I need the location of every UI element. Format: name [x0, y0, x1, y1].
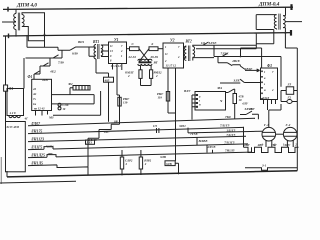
- svg-text:н: н: [264, 89, 266, 92]
- svg-text:Г-2: Г-2: [285, 123, 291, 127]
- IC F1: [32, 79, 52, 110]
- box 405: [104, 77, 114, 82]
- transformer T1 primary winding: [14, 14, 16, 30]
- IC U4: [195, 92, 226, 111]
- wire U4 pins left down: [191, 95, 193, 120]
- svg-text:9: 9: [110, 55, 112, 58]
- wire T2 primary bottom staircase left: [196, 29, 277, 49]
- wire bottom rail with notch: [245, 168, 297, 171]
- svg-text:3031: 3031: [178, 124, 186, 128]
- svg-text:ЗЛВ: ЗЛВ: [159, 155, 166, 159]
- wire bottom frame corner left: [6, 171, 8, 177]
- transformer VT1 primary winding: [94, 45, 96, 59]
- hatch marks F2: [76, 86, 88, 91]
- row 4V1E second to U3 pin: [240, 65, 259, 72]
- transformer T2 core: [279, 14, 280, 30]
- wire VT1 primary bottom down: [96, 59, 109, 77]
- svg-text:41В: 41В: [41, 78, 48, 82]
- transformer VT2 core: [189, 46, 190, 62]
- resistor 47V: [233, 94, 237, 104]
- wire nested corner 2: [53, 91, 101, 115]
- wire VT2 secondary bottom long line y57 to right: [193, 58, 214, 61]
- svg-text:С5: С5: [153, 124, 157, 128]
- node tick left top bus: [7, 7, 9, 12]
- svg-text:Э117-43М: Э117-43М: [6, 125, 19, 129]
- svg-text:11: 11: [165, 53, 168, 56]
- wire U2 to VT2: [184, 47, 187, 58]
- transformer VT1 core: [98, 44, 99, 59]
- svg-text:а: а: [199, 96, 201, 99]
- svg-text:ЛН175: ЛН175: [30, 130, 42, 134]
- svg-text:Ф1: Ф1: [28, 75, 33, 79]
- svg-text:Г-1: Г-1: [263, 123, 269, 127]
- svg-text:4В1Е: 4В1Е: [231, 59, 241, 63]
- wire left vertical from bus B: [5, 36, 7, 85]
- svg-text:ВТ: ВТ: [153, 61, 159, 65]
- svg-text:7: 7: [178, 46, 180, 49]
- wire element G2 horizontal: [281, 101, 297, 103]
- fuse F1m: [118, 97, 121, 106]
- svg-text:4 2 8: 4 2 8: [9, 111, 17, 115]
- contact 7L3E: [222, 53, 228, 56]
- fuse F2m: [166, 92, 169, 102]
- contact F4: [226, 89, 235, 92]
- cascade drop to row c2: [214, 45, 281, 56]
- svg-text:7з: 7з: [33, 97, 37, 101]
- row 4V1E first: [218, 57, 240, 66]
- wire X to VT: [140, 59, 149, 62]
- svg-text:119: 119: [158, 96, 163, 100]
- svg-text:7Л9: 7Л9: [58, 60, 64, 64]
- contact C6: [203, 42, 209, 45]
- contact 3L5L: [240, 111, 258, 119]
- net row 1 line: [28, 118, 255, 126]
- svg-text:з: з: [198, 100, 201, 103]
- resistor C between U1 and X: [130, 47, 140, 51]
- svg-text:4Г: 4Г: [24, 117, 29, 121]
- svg-text:7: 7: [121, 45, 123, 48]
- svg-text:РМЛ2: РМЛ2: [154, 71, 162, 75]
- svg-text:7ВУ: 7ВУ: [271, 143, 277, 147]
- contact LE2 step: [40, 58, 50, 66]
- wire T2 secondary top to bus: [283, 7, 285, 15]
- comb square wave line: [244, 147, 299, 152]
- transformer VT1 secondary winding: [101, 45, 103, 56]
- svg-text:ЛЛ07: ЛЛ07: [30, 122, 41, 126]
- scan edge bottom left: [0, 181, 76, 183]
- wire relay pins down: [266, 140, 293, 147]
- svg-text:ЛЛ2Л: ЛЛ2Л: [261, 97, 269, 100]
- node tick left bus B: [8, 34, 10, 39]
- contact 41V step: [34, 66, 40, 79]
- svg-text:1ЛС: 1ЛС: [104, 130, 111, 134]
- svg-text:1: 1: [264, 71, 266, 74]
- svg-text:3-1: 3-1: [261, 163, 267, 167]
- junction T1 on bus B: [15, 35, 17, 37]
- svg-text:ДПМ 4,0: ДПМ 4,0: [16, 3, 37, 9]
- svg-text:4ВУ: 4ВУ: [46, 152, 54, 156]
- IC K1 box: [7, 89, 24, 116]
- svg-text:С6: С6: [201, 41, 205, 45]
- wire fuse2 down: [168, 101, 176, 113]
- wire VT1 lower tap: [89, 47, 96, 56]
- node terminal right bus B: [290, 30, 292, 36]
- svg-text:7ЛЗЕ: 7ЛЗЕ: [221, 51, 230, 55]
- svg-text:2: 2: [125, 162, 128, 166]
- svg-text:2ФЛ5: 2ФЛ5: [88, 138, 97, 142]
- wire T1 primary top to bus: [15, 9, 17, 13]
- wire T1 primary tap from left: [2, 21, 16, 23]
- step row4-row5: [206, 145, 208, 153]
- transformer VT2 secondary winding: [193, 47, 195, 58]
- transformer T1 secondary winding: [22, 15, 24, 27]
- svg-text:а: а: [264, 77, 266, 80]
- svg-text:ЛН1123: ЛН1123: [30, 138, 44, 142]
- svg-text:119: 119: [123, 101, 128, 105]
- svg-text:не 12 43: не 12 43: [34, 107, 45, 111]
- connector bumps below K1: [9, 116, 20, 118]
- wire T2 secondary bottom to bus: [283, 28, 297, 48]
- transformer VT core: [139, 61, 152, 64]
- resistor R1 below VT: [139, 70, 142, 79]
- svg-text:8: 8: [110, 60, 112, 63]
- wire T2 primary loop left: [256, 15, 276, 30]
- svg-text:з: з: [263, 83, 266, 86]
- net row 6 line: [28, 165, 88, 175]
- svg-text:4В1Е: 4В1Е: [244, 67, 254, 71]
- wire resistor E to U2: [158, 48, 163, 50]
- relay G-2: [283, 127, 297, 141]
- wire relay G1 top: [268, 104, 282, 127]
- svg-text:22-32: 22-32: [128, 55, 137, 59]
- wire VT1 secondary to U1: [101, 45, 109, 57]
- wire fuse1 bottom staircase: [111, 106, 119, 124]
- IC U3: [261, 68, 278, 100]
- staircase step 1LS: [99, 124, 111, 129]
- wire U2 bottom pins down: [168, 68, 176, 161]
- svg-text:ЛН1Л25: ЛН1Л25: [30, 154, 45, 158]
- wire rows verticals to comb: [213, 127, 252, 153]
- IC U2: [163, 43, 184, 68]
- junction bus B x27: [26, 35, 28, 37]
- svg-text:1н: 1н: [33, 102, 37, 106]
- wire 405 down: [108, 82, 110, 122]
- wire T1 primary bottom to bus B: [15, 30, 17, 37]
- wire U1 bottom pin down to fuse1: [121, 64, 123, 71]
- svg-text:1: 1: [165, 46, 167, 49]
- svg-text:1: 1: [121, 55, 123, 58]
- wire top bus: [3, 7, 293, 9]
- transformer T2 secondary winding: [283, 16, 285, 28]
- svg-text:4ВУ: 4ВУ: [243, 143, 250, 147]
- svg-text:9ВУ: 9ВУ: [285, 143, 291, 147]
- transformer T1 core: [18, 13, 19, 31]
- pins U3 left: [261, 71, 263, 73]
- pins U4 left: [192, 95, 196, 107]
- connector K2 tall box: [6, 122, 26, 172]
- svg-text:9Л9: 9Л9: [72, 52, 78, 56]
- svg-text:ВП1: ВП1: [77, 40, 85, 44]
- capacitor E1: [4, 85, 8, 91]
- svg-text:А1: А1: [32, 92, 37, 96]
- wire T2 secondary right tap: [285, 21, 302, 23]
- wire nested corner 1: [52, 95, 95, 104]
- step row3-row4: [196, 137, 198, 145]
- capacitor CLR2: [120, 157, 123, 169]
- wire c2 junction up to U3 top: [241, 48, 262, 68]
- relay G-1: [262, 127, 276, 141]
- crossing X wires: [139, 49, 149, 62]
- svg-text:Ф2: Ф2: [69, 82, 74, 86]
- wire U1 to resistor C: [127, 48, 130, 50]
- svg-text:4ЛУ: 4ЛУ: [241, 102, 249, 106]
- net row 5 line: [28, 152, 252, 158]
- svg-text:Ч: Ч: [220, 99, 223, 103]
- wires G5 stubs: [281, 91, 297, 102]
- svg-text:11: 11: [110, 45, 113, 48]
- transformer VT bottom winding: [138, 64, 152, 66]
- svg-text:13 17 12: 13 17 12: [166, 64, 177, 68]
- net row 3 line: [28, 136, 246, 141]
- svg-text:4ЛУЕ: 4ЛУЕ: [206, 145, 216, 149]
- svg-text:ЛЛ1Г5: ЛЛ1Г5: [30, 146, 42, 150]
- wire staircase drop to K1: [23, 58, 25, 89]
- svg-text:4ВУ: 4ВУ: [248, 107, 255, 111]
- wire bottom frame line: [7, 171, 297, 177]
- wires CLR2: [121, 150, 123, 175]
- svg-text:13: 13: [110, 50, 113, 53]
- svg-text:У1: У1: [114, 38, 119, 42]
- svg-text:7: 7: [272, 71, 274, 74]
- svg-text:405: 405: [104, 78, 110, 82]
- svg-text:Г5: Г5: [287, 82, 292, 86]
- wires VT to resistors: [141, 66, 152, 70]
- node terminal right top bus: [290, 4, 292, 10]
- svg-text:С: С: [132, 42, 135, 46]
- contact 9L9: [70, 47, 76, 50]
- svg-text:ЧЛУ: ЧЛУ: [46, 144, 54, 148]
- svg-text:ЛН1Л5: ЛН1Л5: [30, 162, 43, 166]
- svg-text:4: 4: [177, 56, 180, 59]
- svg-text:0Р: 0Р: [114, 120, 118, 124]
- svg-text:ЗЛВ: ЗЛВ: [165, 162, 172, 166]
- wire staircase down to bottom: [87, 138, 89, 167]
- wire T1 secondary bottom right: [22, 27, 45, 41]
- element G2 on wire: [287, 100, 292, 104]
- component 3LV box: [165, 161, 175, 166]
- svg-text:4: 4: [120, 50, 123, 53]
- svg-text:7Л1Г5: 7Л1Г5: [220, 124, 230, 128]
- transformer T2 right primary winding: [274, 15, 276, 29]
- wire VT2 secondary top cascade c1: [193, 45, 256, 46]
- resistor R2 below VT: [150, 70, 153, 79]
- capacitor RLR2: [139, 157, 142, 169]
- wire step to contact 9L9: [58, 47, 96, 50]
- wires resistors join: [141, 78, 152, 85]
- junction bus B x44.5: [44, 34, 46, 36]
- wire main bus B: [3, 33, 292, 36]
- resistor E right: [149, 47, 158, 51]
- resistor network F2: [73, 86, 90, 91]
- svg-text:НЛУ: НЛУ: [183, 89, 191, 93]
- svg-text:7Л1Г5: 7Л1Г5: [226, 133, 235, 137]
- box LL3: [86, 140, 95, 144]
- svg-text:ДПМ-0,4: ДПМ-0,4: [258, 2, 280, 8]
- step row2-row3: [188, 128, 262, 133]
- wire T1 secondary top going right and down: [22, 13, 45, 48]
- svg-text:2: 2: [127, 74, 130, 78]
- IC U1: [109, 42, 127, 64]
- svg-text:С118: С118: [63, 104, 70, 107]
- wire right vertical v1: [280, 57, 282, 87]
- svg-text:ВТ2: ВТ2: [185, 40, 192, 44]
- transformer VT horizontal top winding: [138, 59, 152, 61]
- svg-text:7Б0: 7Б0: [225, 115, 231, 119]
- svg-text:ЗЛЕ: ЗЛЕ: [233, 78, 241, 82]
- svg-text:У2: У2: [170, 39, 175, 43]
- wire resistor 47V top: [234, 89, 236, 93]
- row 3LE to U3 pin: [220, 79, 261, 83]
- svg-text:2: 2: [155, 74, 158, 78]
- svg-text:3Л1Е: 3Л1Е: [208, 41, 218, 45]
- transformer VT2 primary winding: [184, 46, 186, 60]
- svg-text:МЗ: МЗ: [48, 116, 54, 120]
- svg-text:н: н: [199, 104, 201, 107]
- junction T2 bus: [285, 32, 287, 34]
- svg-text:Ф3: Ф3: [267, 64, 272, 68]
- svg-text:42: 42: [32, 87, 37, 91]
- junction c2 x240.5: [240, 56, 242, 58]
- net row 4 line: [28, 144, 248, 150]
- svg-text:Ф4: Ф4: [218, 86, 223, 90]
- wire E1 down to connector: [5, 91, 7, 121]
- svg-text:29-39: 29-39: [150, 55, 159, 59]
- svg-text:2: 2: [144, 162, 147, 166]
- svg-text:4Е2: 4Е2: [49, 69, 56, 73]
- svg-text:7Н1Л5: 7Н1Л5: [225, 149, 235, 153]
- svg-text:4: 4: [271, 89, 274, 92]
- wires RLR2: [140, 150, 142, 175]
- relay box G5: [286, 87, 294, 95]
- svg-text:10: 10: [63, 108, 66, 111]
- wire right border vertical: [296, 48, 298, 171]
- staircase step 2FL5: [88, 130, 99, 139]
- svg-text:2: 2: [164, 60, 167, 63]
- contact 7L9 step: [26, 50, 63, 58]
- capacitor C5 plates on row2: [157, 128, 159, 133]
- svg-text:ВЛВЕ: ВЛВЕ: [198, 139, 209, 143]
- wire relay rail: [276, 133, 284, 135]
- svg-text:6: 6: [152, 42, 154, 46]
- net row 2 line: [28, 127, 243, 133]
- scan edge left vertical: [0, 157, 2, 184]
- svg-text:4ВУ: 4ВУ: [257, 143, 264, 147]
- wire U1 bottom pin stubs: [113, 64, 120, 98]
- wire U loop below bus: [27, 36, 58, 47]
- wire resistor 47V bottom to row1: [234, 104, 236, 119]
- diode pair C118: [58, 103, 61, 106]
- svg-text:Г2: Г2: [287, 96, 292, 100]
- svg-text:ВТ1: ВТ1: [92, 40, 99, 44]
- wire F2 left stub: [70, 88, 73, 95]
